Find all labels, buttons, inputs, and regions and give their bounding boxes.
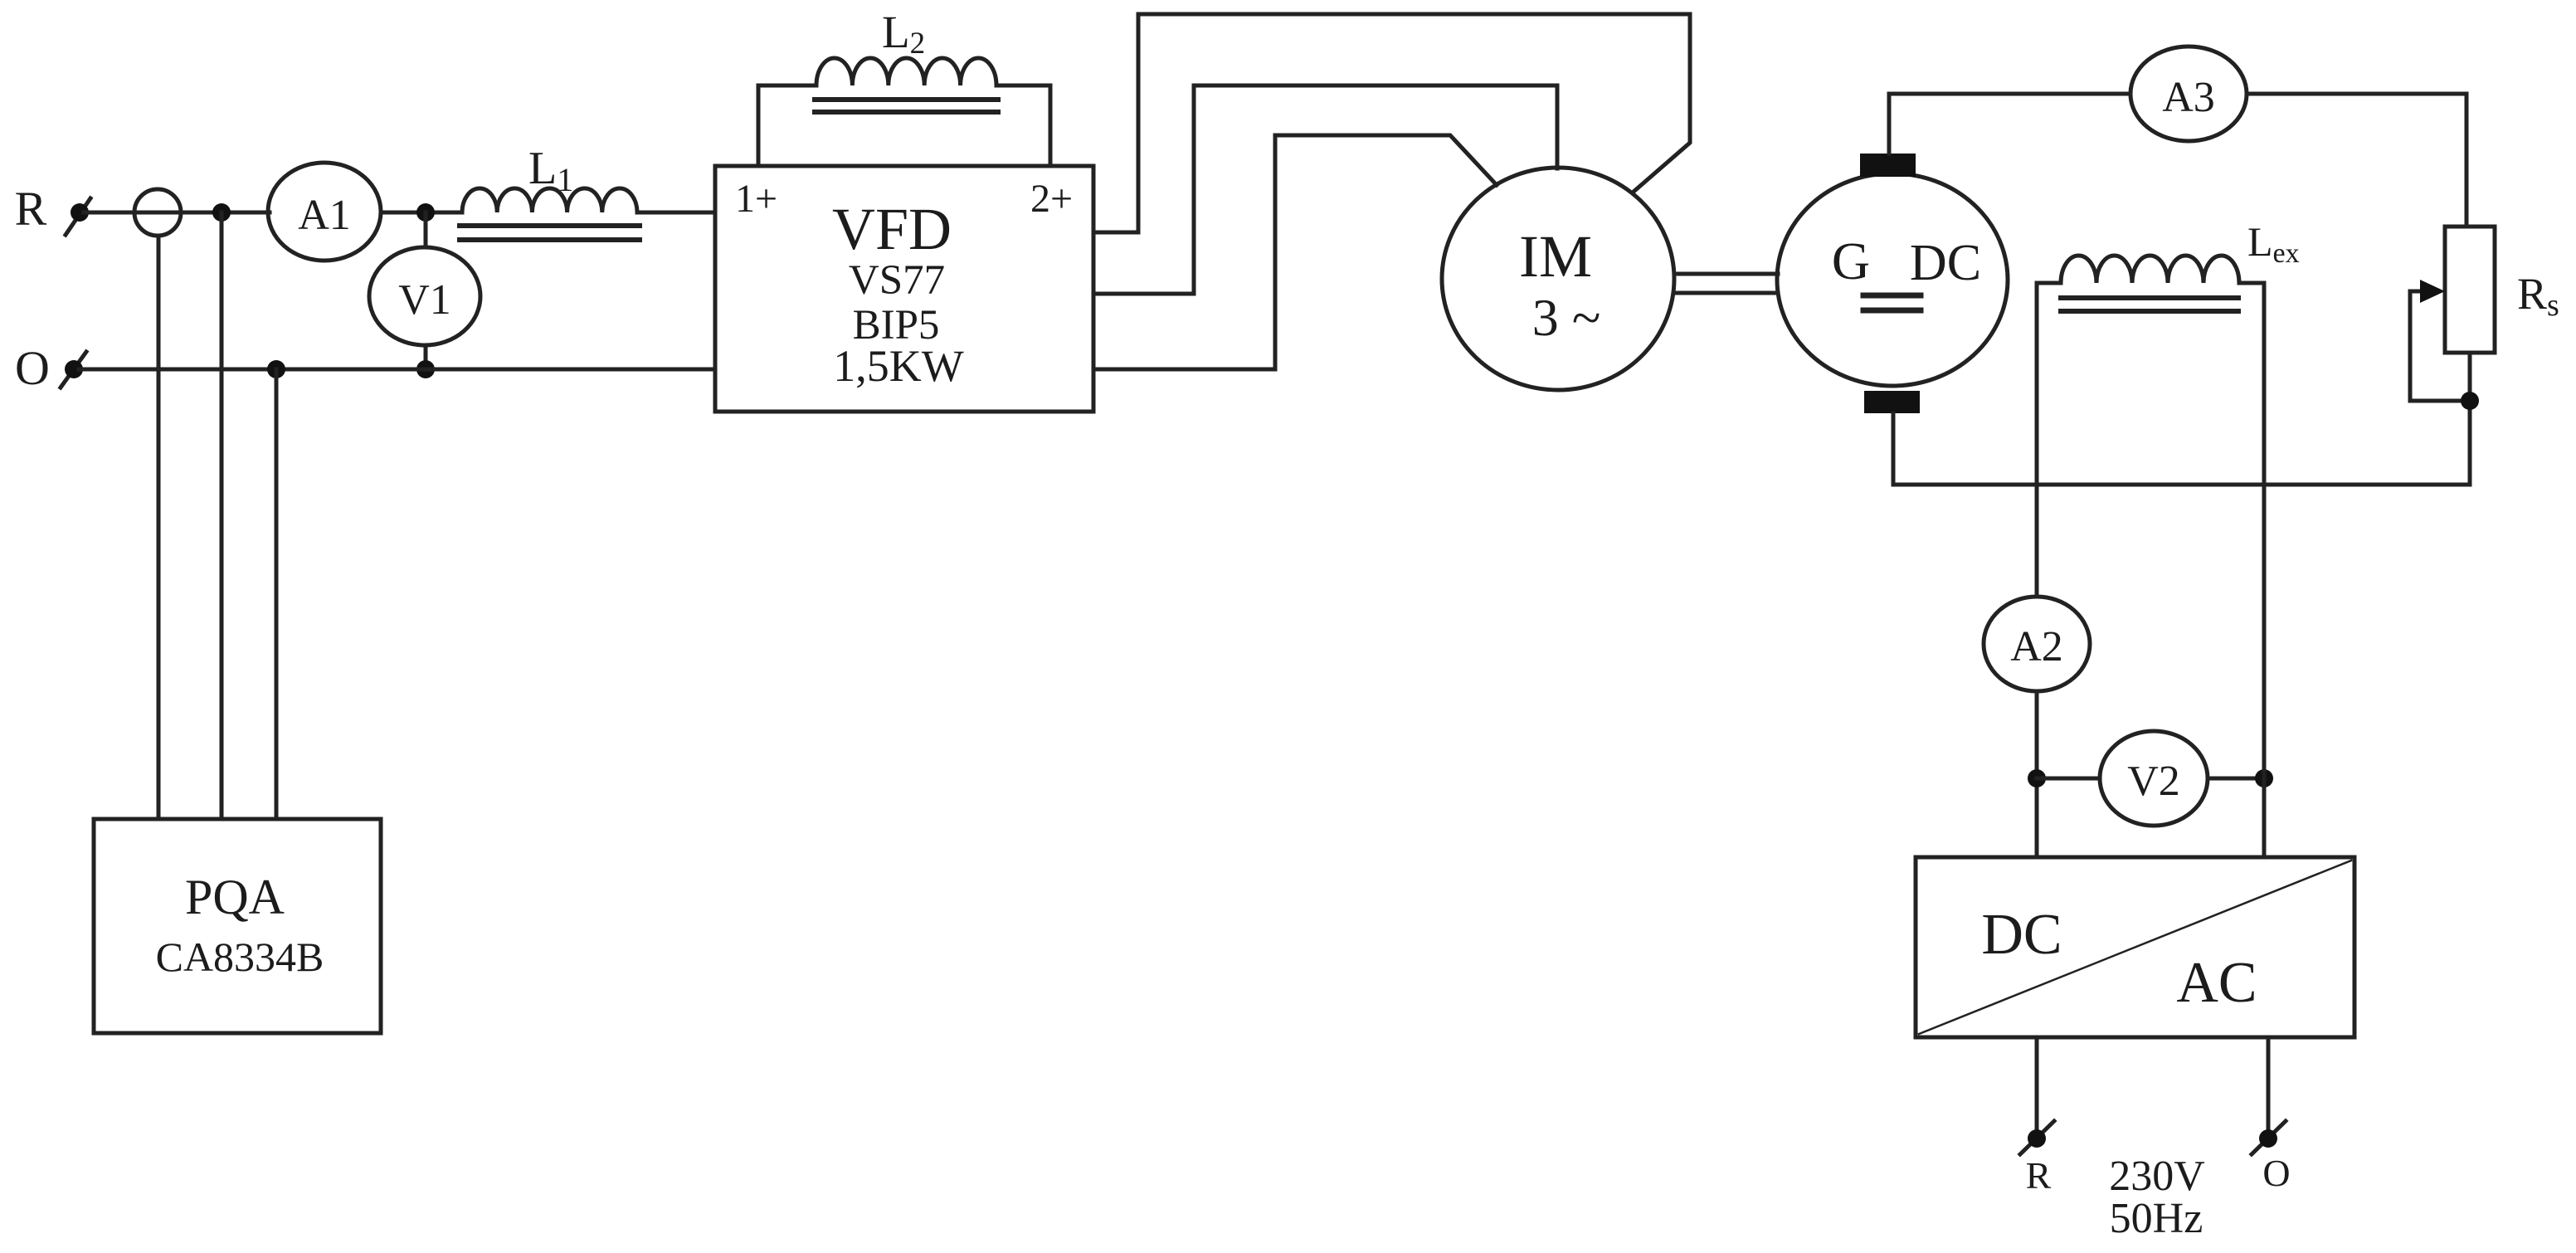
- generator G DC: [1777, 173, 2008, 386]
- wire VFD out 3: [1093, 135, 1497, 369]
- svg-text:AC: AC: [2176, 951, 2257, 1015]
- svg-text:50Hz: 50Hz: [2110, 1195, 2203, 1242]
- svg-text:3 ~: 3 ~: [1532, 288, 1601, 347]
- rheostat Rs: [2445, 227, 2495, 353]
- svg-text:R: R: [2026, 1154, 2052, 1197]
- svg-text:V2: V2: [2127, 758, 2180, 805]
- wire VFD out 2: [1093, 85, 1557, 294]
- wire O tap to PQA: [275, 369, 279, 819]
- wire V2 left: [2037, 777, 2100, 781]
- converter DC/AC box: [1916, 857, 2354, 1037]
- wire V1 to O line: [424, 345, 428, 369]
- ammeter A2: [1984, 597, 2090, 691]
- svg-text:O: O: [2262, 1152, 2290, 1194]
- ammeter A3: [2130, 46, 2247, 141]
- VFD box: [715, 166, 1093, 412]
- wire A2 to junction: [2035, 691, 2039, 857]
- node junction V1 bottom: [416, 360, 435, 378]
- wire Lex right down to converter: [2262, 283, 2267, 857]
- svg-text:A2: A2: [2010, 623, 2063, 670]
- terminal switch O bottom: [2252, 1121, 2286, 1154]
- terminal switch O: [61, 352, 86, 388]
- svg-text:V1: V1: [398, 276, 451, 324]
- inductor L1: [462, 188, 637, 212]
- motor IM: [1442, 168, 1674, 390]
- wire O line: [79, 368, 715, 372]
- terminal switch R: [66, 198, 90, 235]
- node junction V2 left: [2028, 769, 2046, 787]
- wiper arrow Rs: [2410, 291, 2470, 401]
- shaft coupling: [1674, 272, 1778, 276]
- svg-text:DC: DC: [1981, 903, 2062, 967]
- svg-text:DC: DC: [1910, 235, 1981, 291]
- svg-text:Lex: Lex: [2247, 218, 2300, 269]
- svg-text:VS77: VS77: [849, 257, 945, 304]
- wire CT to PQA: [157, 236, 161, 819]
- voltmeter V1: [369, 247, 480, 345]
- node junction O tap: [267, 360, 285, 378]
- svg-text:VFD: VFD: [832, 196, 952, 262]
- terminal switch R bottom: [2020, 1121, 2054, 1154]
- current clamp CT: [134, 189, 181, 236]
- svg-text:Rs: Rs: [2517, 269, 2559, 323]
- wire converter R out: [2035, 1037, 2039, 1135]
- node junction Rs wiper: [2461, 392, 2479, 410]
- svg-text:L1: L1: [528, 143, 573, 198]
- wire G+ to A3: [1889, 94, 2130, 154]
- wire A3 to Rs: [2247, 94, 2466, 227]
- wire R tap to PQA: [220, 212, 224, 819]
- svg-text:1,5KW: 1,5KW: [833, 341, 963, 391]
- svg-text:R: R: [15, 182, 47, 236]
- svg-text:1+: 1+: [735, 177, 777, 221]
- voltmeter V2: [2100, 731, 2208, 826]
- ammeter A1: [268, 163, 381, 261]
- svg-text:A1: A1: [298, 192, 351, 239]
- inductor Lex: [2037, 281, 2061, 285]
- brush bottom: [1864, 391, 1920, 413]
- node junction V1 top: [416, 203, 435, 222]
- node junction V2 right: [2255, 769, 2273, 787]
- PQA box: [94, 819, 381, 1033]
- wire G- bottom loop: [1893, 413, 2470, 485]
- brush top: [1860, 154, 1916, 177]
- svg-text:2+: 2+: [1030, 177, 1073, 221]
- svg-text:CA8334B: CA8334B: [156, 934, 324, 980]
- wire Rs bottom: [2468, 353, 2472, 485]
- wire converter O out: [2267, 1037, 2271, 1135]
- svg-text:O: O: [15, 341, 50, 395]
- wire L1 to VFD: [637, 211, 715, 215]
- inductor L2: [758, 85, 816, 166]
- svg-text:G: G: [1832, 232, 1870, 290]
- wire VFD out 1 (2+): [1093, 14, 1690, 232]
- svg-text:PQA: PQA: [185, 870, 285, 924]
- node junction R tap: [212, 203, 231, 222]
- wire Lex left down to A2: [2035, 283, 2039, 597]
- svg-text:L2: L2: [882, 7, 925, 61]
- wire V2 right: [2208, 777, 2264, 781]
- wire A1 to L1: [381, 211, 462, 215]
- svg-text:230V: 230V: [2109, 1153, 2205, 1200]
- svg-text:A3: A3: [2162, 74, 2215, 121]
- svg-text:IM: IM: [1519, 223, 1592, 290]
- wire V1 drop: [424, 212, 428, 247]
- wire R line: [84, 211, 270, 215]
